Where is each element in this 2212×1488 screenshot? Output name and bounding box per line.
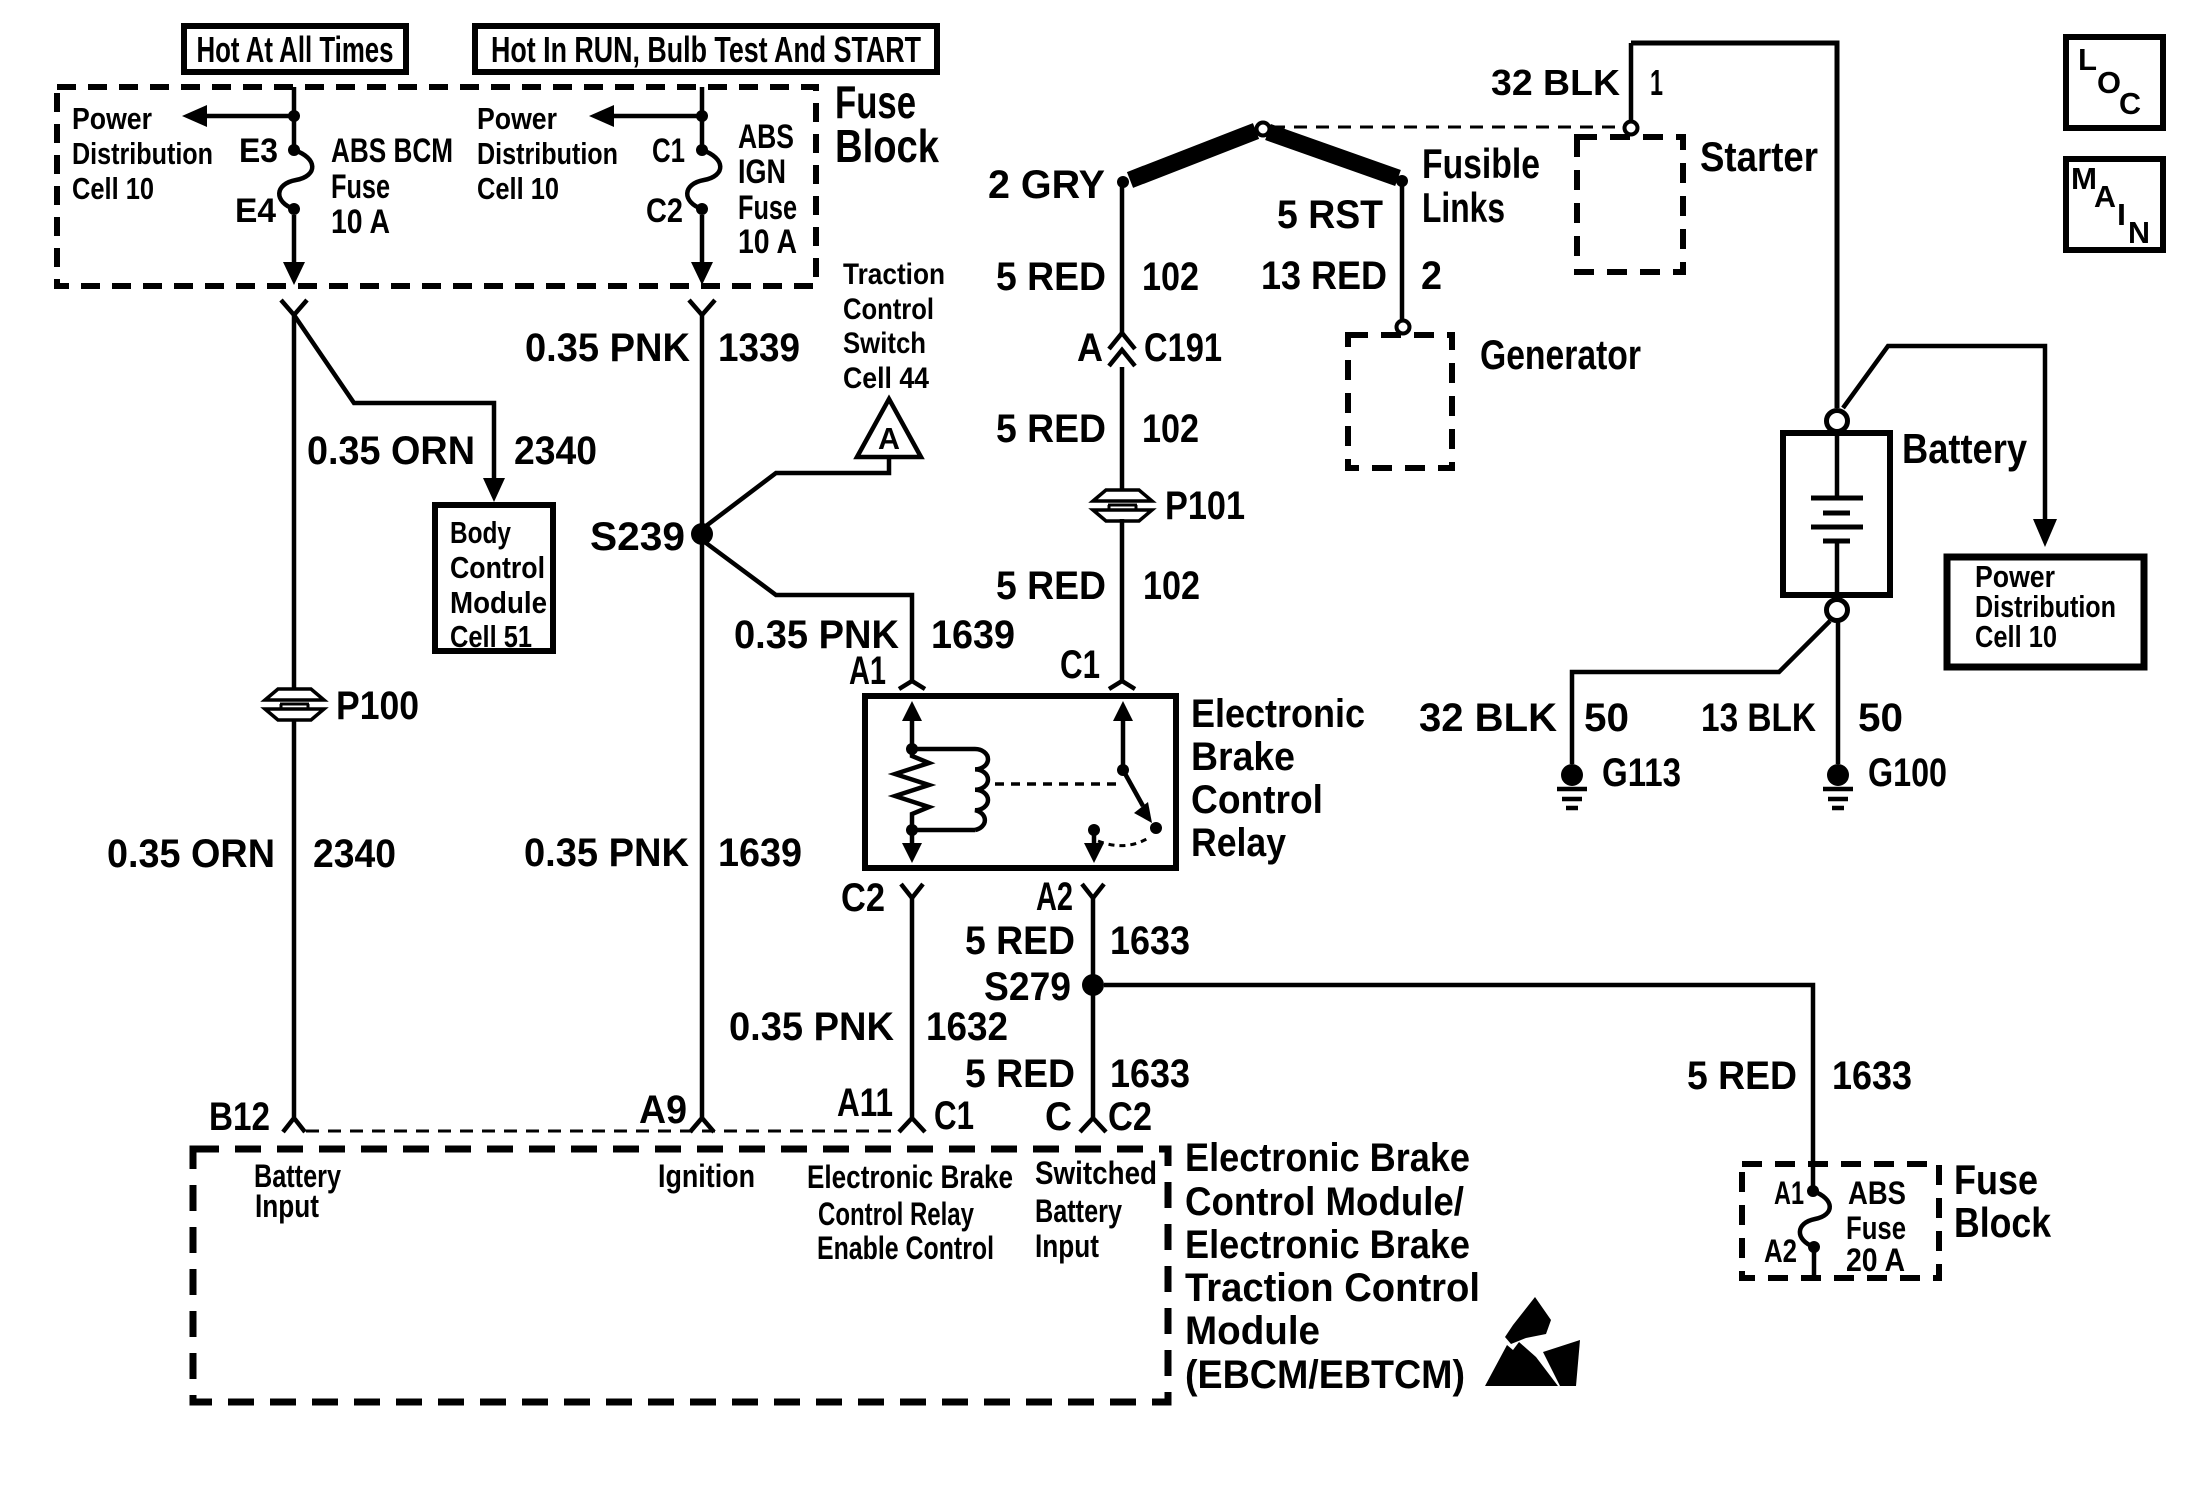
wire: battery negative branch to G113 [1572, 621, 1830, 764]
relay pin A2 internal arrow down [1084, 830, 1104, 863]
svg-text:C2: C2 [1108, 1095, 1152, 1139]
svg-text:Generator: Generator [1480, 331, 1641, 378]
svg-text:1339: 1339 [718, 326, 800, 370]
svg-text:5 RST: 5 RST [1277, 193, 1383, 237]
svg-text:C: C [2119, 86, 2141, 121]
svg-text:Input: Input [255, 1188, 319, 1224]
wire: ignition feed into ABS IGN fuse [700, 87, 705, 150]
svg-text:G113: G113 [1602, 751, 1681, 795]
svg-text:P101: P101 [1165, 484, 1245, 528]
svg-text:B12: B12 [209, 1095, 270, 1139]
svg-text:50: 50 [1584, 696, 1629, 740]
connector chevron A11 into EBCM [899, 1118, 925, 1132]
svg-text:Body: Body [450, 515, 512, 550]
fuse: ABS Fuse 20A (A1-A2) [1800, 1185, 1830, 1278]
svg-text:A: A [1077, 326, 1103, 370]
svg-text:13 RED: 13 RED [1261, 254, 1387, 298]
relay pin A1 internal arrow up [902, 701, 922, 749]
svg-text:Links: Links [1422, 184, 1505, 231]
svg-text:G100: G100 [1868, 751, 1947, 795]
node: switch pivot [1117, 764, 1129, 776]
node: battery negative terminal circle [1827, 600, 1848, 621]
svg-text:Distribution: Distribution [477, 136, 618, 171]
battery cell symbol [1811, 433, 1863, 595]
svg-text:A11: A11 [837, 1081, 893, 1125]
node: right link end [1396, 175, 1408, 187]
wire: left link down to C191 [1120, 186, 1125, 333]
resistor inside relay [895, 749, 929, 830]
svg-text:ABS: ABS [738, 118, 794, 156]
svg-text:L: L [2078, 42, 2097, 77]
wire: battery feed into ABS BCM fuse [292, 87, 297, 150]
relay coil [912, 749, 988, 830]
svg-text:A1: A1 [849, 649, 886, 693]
svg-text:P100: P100 [336, 684, 419, 728]
relay pin C1 internal arrow up and pivot [1113, 701, 1133, 766]
svg-text:32 BLK: 32 BLK [1491, 62, 1620, 103]
connector chevron below fuse block (left wire) [281, 300, 307, 315]
svg-text:S239: S239 [590, 515, 685, 559]
wire: S239 splice up to triangle A [702, 457, 889, 529]
connector chevron C into EBCM [1080, 1118, 1106, 1132]
fuse block (top) dashed box [57, 87, 816, 286]
main reference box [2066, 159, 2163, 250]
wire: battery negative to G100 [1836, 622, 1841, 764]
connector chevron below fuse block (right wire) [689, 300, 715, 315]
svg-text:0.35 PNK: 0.35 PNK [524, 831, 689, 875]
fuse: ABS BCM Fuse 10A (E3-E4) [279, 144, 312, 215]
svg-text:Power: Power [477, 101, 557, 136]
svg-text:S279: S279 [984, 965, 1071, 1009]
svg-text:A1: A1 [1774, 1175, 1804, 1211]
svg-text:Electronic Brake: Electronic Brake [1185, 1136, 1470, 1180]
node: splice S279 [1082, 974, 1104, 996]
label: Electronic Brake Control Relay [1191, 692, 1365, 865]
svg-text:Control: Control [843, 293, 934, 326]
svg-text:Switch: Switch [843, 327, 926, 360]
label: Fusible Links [1422, 140, 1540, 231]
wire: below P100 to EBCM B12 [292, 719, 297, 1117]
dashed connector line along EBCM top [306, 1130, 898, 1133]
node: resistor bottom junction [906, 824, 918, 836]
svg-text:Ignition: Ignition [658, 1158, 755, 1194]
svg-text:(EBCM/EBTCM): (EBCM/EBTCM) [1185, 1353, 1465, 1397]
wire: P101 down to relay C1 [1120, 519, 1125, 680]
svg-text:Control Module/: Control Module/ [1185, 1180, 1464, 1224]
svg-text:Brake: Brake [1191, 735, 1295, 779]
svg-text:O: O [2097, 65, 2121, 100]
svg-text:A: A [2094, 179, 2116, 214]
node: splice S239 [691, 523, 713, 545]
ESD sensitive device symbol [1485, 1297, 1580, 1386]
svg-text:ABS BCM: ABS BCM [331, 132, 453, 170]
fuse: ABS IGN Fuse 10A (C1-C2) [687, 144, 720, 215]
dashed actuate link coil to switch [995, 782, 1116, 786]
svg-text:5 RED: 5 RED [965, 919, 1075, 963]
svg-text:0.35 ORN: 0.35 ORN [307, 429, 475, 473]
svg-text:Fuse: Fuse [1846, 1210, 1906, 1246]
fusible link bar (right, 5 RST) [1268, 132, 1398, 178]
svg-text:102: 102 [1142, 255, 1199, 299]
svg-text:A: A [878, 421, 900, 456]
svg-text:Electronic: Electronic [1191, 692, 1365, 736]
svg-text:Cell 51: Cell 51 [450, 619, 532, 654]
svg-text:Cell 10: Cell 10 [477, 171, 559, 206]
svg-text:C1: C1 [934, 1094, 974, 1138]
svg-text:Block: Block [835, 120, 939, 172]
svg-text:Control Relay: Control Relay [818, 1196, 974, 1232]
svg-text:0.35 ORN: 0.35 ORN [107, 832, 275, 876]
svg-text:C2: C2 [646, 192, 683, 230]
svg-text:2: 2 [1421, 254, 1442, 298]
svg-text:1633: 1633 [1832, 1054, 1912, 1098]
svg-text:Hot At All Times: Hot At All Times [197, 29, 394, 70]
wire: 0.35 ORN 2340 main run down left [292, 315, 297, 689]
svg-text:Fusible: Fusible [1422, 140, 1540, 187]
svg-text:Control: Control [1191, 778, 1323, 822]
connector chevron A1 into relay [899, 681, 925, 689]
svg-text:Input: Input [1035, 1228, 1099, 1264]
svg-text:IGN: IGN [738, 153, 786, 191]
wire: S239 branch to relay A1 [702, 540, 912, 680]
svg-text:1633: 1633 [1110, 1052, 1190, 1096]
wire: battery feed to power distribution arrow [1843, 346, 2057, 547]
wire: C2 down to fuse block edge with arrow [691, 215, 713, 285]
label: ABS IGN Fuse 10 A [738, 118, 797, 261]
wire: 32 BLK from fusible links to starter [1629, 43, 1634, 121]
connector chevron C1 into relay [1109, 681, 1135, 689]
wire: arrow to Power Distribution (left) [182, 105, 294, 127]
svg-text:E4: E4 [235, 192, 276, 230]
svg-text:Power: Power [72, 101, 152, 136]
svg-text:0.35 PNK: 0.35 PNK [525, 326, 690, 370]
wire: right link down to generator [1400, 185, 1405, 319]
svg-text:C1: C1 [1060, 643, 1100, 687]
node: left link end [1117, 176, 1129, 188]
wire: relay A2 down to S279 [1091, 898, 1096, 1117]
box: Body Control Module Cell 51 [435, 505, 553, 654]
svg-text:1639: 1639 [931, 613, 1015, 657]
svg-text:C191: C191 [1144, 326, 1222, 370]
dashed travel arc [1098, 837, 1150, 846]
svg-text:E3: E3 [239, 132, 278, 170]
svg-text:10 A: 10 A [331, 203, 390, 241]
svg-text:Battery: Battery [1035, 1193, 1122, 1229]
node: starter terminal circle [1625, 122, 1638, 135]
fusible link bar (left, 2 GRY) [1130, 131, 1256, 180]
svg-text:Battery: Battery [1902, 425, 2028, 472]
connector chevron B12 into EBCM [283, 1118, 305, 1132]
connector chevron A9 into EBCM [690, 1118, 714, 1132]
wire: E4 down to fuse block edge with arrow [283, 215, 305, 285]
svg-text:5 RED: 5 RED [965, 1052, 1075, 1096]
label: ABS Fuse 20 A [1846, 1175, 1906, 1278]
header box: Hot At All Times [184, 26, 406, 72]
battery box [1783, 433, 1890, 595]
node: switch thrown contact [1150, 822, 1162, 834]
svg-text:1639: 1639 [718, 831, 802, 875]
wire: starter jumper over to battery [1631, 43, 1837, 408]
svg-text:Block: Block [1954, 1199, 2052, 1246]
label: Power Distribution Cell 10 (left) [72, 101, 213, 206]
wire: relay C2 down to EBCM A11 [910, 898, 915, 1117]
connector chevron C2 out of relay [901, 884, 923, 898]
generator dashed box [1348, 335, 1452, 468]
svg-text:Module: Module [1185, 1309, 1320, 1353]
label: Fuse Block (top) [835, 76, 939, 172]
starter dashed box [1577, 137, 1683, 272]
svg-text:Fuse: Fuse [331, 168, 390, 206]
wire: arrow to Power Distribution (right) [589, 105, 702, 127]
svg-text:20 A: 20 A [1846, 1242, 1905, 1278]
node: resistor top junction [906, 743, 918, 755]
svg-text:102: 102 [1142, 407, 1199, 451]
svg-text:A2: A2 [1764, 1233, 1797, 1269]
svg-text:Enable Control: Enable Control [817, 1230, 994, 1266]
svg-text:10 A: 10 A [738, 223, 797, 261]
connector: P101 pass-through [1093, 490, 1152, 521]
svg-text:2340: 2340 [514, 429, 597, 473]
wire: C191 to P101 [1120, 367, 1125, 489]
svg-text:I: I [2117, 197, 2126, 232]
svg-text:Module: Module [450, 585, 547, 620]
svg-text:N: N [2128, 215, 2150, 250]
relay pin C2 internal arrow down [902, 830, 922, 863]
svg-text:Switched: Switched [1035, 1155, 1157, 1191]
relay: Electronic Brake Control Relay box [865, 696, 1176, 868]
wire: S279 to ABS fuse (bottom right) [1104, 985, 1813, 1186]
svg-text:50: 50 [1858, 696, 1903, 740]
label: Power Distribution Cell 10 (right) [477, 101, 618, 206]
svg-text:5 RED: 5 RED [996, 564, 1106, 608]
EBCM dashed box [193, 1149, 1168, 1402]
svg-text:Cell 10: Cell 10 [72, 171, 154, 206]
svg-text:Hot In RUN, Bulb Test And STAR: Hot In RUN, Bulb Test And START [491, 29, 921, 70]
svg-text:Starter: Starter [1700, 133, 1818, 180]
svg-text:Fuse: Fuse [738, 189, 797, 227]
svg-text:102: 102 [1143, 564, 1200, 608]
ground G100 [1823, 764, 1853, 808]
svg-text:Fuse: Fuse [1954, 1156, 2038, 1203]
svg-text:1633: 1633 [1110, 919, 1190, 963]
node: junction dot on feed [288, 110, 300, 122]
svg-text:1: 1 [1650, 62, 1663, 103]
svg-text:5 RED: 5 RED [996, 407, 1106, 451]
symbol: traction control switch triangle A [857, 399, 921, 457]
svg-text:C1: C1 [652, 132, 685, 170]
switch arm with arrowhead [1123, 770, 1152, 823]
svg-text:Traction: Traction [843, 258, 945, 291]
box: Power Distribution Cell 10 (right) [1947, 557, 2144, 667]
fuse block (bottom) dashed box [1742, 1164, 1939, 1278]
svg-text:A9: A9 [639, 1088, 687, 1132]
svg-text:32 BLK: 32 BLK [1419, 696, 1557, 740]
svg-text:ABS: ABS [1848, 1175, 1906, 1211]
connector C191 double chevron [1109, 333, 1135, 366]
label: Switched Battery Input [1035, 1155, 1157, 1264]
node: fusible link apex terminal [1257, 123, 1270, 136]
svg-text:5 RED: 5 RED [1687, 1054, 1797, 1098]
dashed line from links to starter [1272, 126, 1624, 129]
svg-text:C: C [1045, 1095, 1072, 1139]
wire: branch from splice to Body Control Module [294, 315, 505, 502]
header box: Hot In RUN, Bulb Test And START [475, 26, 937, 72]
label: ABS BCM Fuse 10 A [331, 132, 453, 241]
node: battery positive terminal circle [1827, 411, 1848, 432]
svg-text:Electronic Brake: Electronic Brake [1185, 1223, 1470, 1267]
svg-text:13 BLK: 13 BLK [1701, 696, 1816, 740]
svg-text:Control: Control [450, 550, 545, 585]
svg-text:A2: A2 [1036, 875, 1073, 919]
ground G113 [1557, 764, 1587, 808]
connector chevron A2 out of relay [1082, 884, 1104, 898]
wire: ignition run down (0.35 PNK) [700, 315, 705, 1117]
node: junction dot on ignition feed [696, 110, 708, 122]
label: Battery Input (EBCM) [254, 1158, 341, 1224]
label: Electronic Brake Control Module / EBTCM title [1185, 1136, 1480, 1397]
svg-text:1632: 1632 [926, 1005, 1008, 1049]
label: Electronic Brake Control Relay Enable Control [807, 1159, 1013, 1266]
svg-text:Cell 44: Cell 44 [843, 362, 929, 395]
svg-text:2 GRY: 2 GRY [988, 163, 1105, 207]
svg-text:0.35 PNK: 0.35 PNK [729, 1005, 894, 1049]
svg-text:Cell 10: Cell 10 [1975, 619, 2057, 654]
node: A2 contact [1088, 824, 1100, 836]
node: generator terminal circle [1397, 321, 1410, 334]
svg-text:C2: C2 [841, 876, 885, 920]
loc reference box [2066, 37, 2163, 128]
label: Traction Control Switch Cell 44 [843, 258, 945, 395]
svg-text:Distribution: Distribution [72, 136, 213, 171]
svg-text:Traction Control: Traction Control [1185, 1266, 1480, 1310]
svg-text:5 RED: 5 RED [996, 255, 1106, 299]
svg-text:Electronic Brake: Electronic Brake [807, 1159, 1013, 1195]
svg-text:2340: 2340 [313, 832, 396, 876]
label: Fuse Block (bottom) [1954, 1156, 2052, 1246]
svg-text:Relay: Relay [1191, 821, 1287, 865]
connector: P100 pass-through [265, 689, 324, 720]
